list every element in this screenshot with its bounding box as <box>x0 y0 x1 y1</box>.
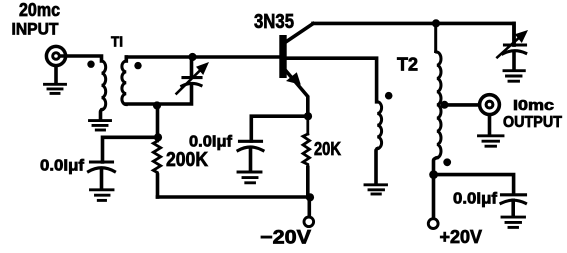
wire to -20V terminal <box>307 197 311 217</box>
wire tank bottom <box>126 85 191 104</box>
transformer T2 primary winding <box>376 102 382 184</box>
label -20V <box>260 228 311 249</box>
transistor Q1 collector <box>287 24 314 42</box>
svg-text:0.0Iμf: 0.0Iμf <box>40 158 85 175</box>
junction dot B+ node <box>429 170 438 179</box>
ground below J1 <box>45 84 66 93</box>
connector J1 input <box>46 46 65 83</box>
junction dot bottom rail <box>306 193 314 201</box>
resistor R2 20K <box>303 116 310 197</box>
wire tank to node A <box>156 106 160 138</box>
label T2 <box>397 55 418 75</box>
label 20mc <box>19 0 60 20</box>
label 200K <box>166 149 208 171</box>
ground below T2 primary <box>365 185 387 194</box>
wire tap to output connector <box>443 103 479 107</box>
svg-text:200K: 200K <box>166 149 208 171</box>
capacitor C3 <box>238 141 263 171</box>
junction dot emitter node <box>304 112 312 120</box>
junction dot tank top <box>188 53 196 61</box>
transformer T2 secondary winding <box>434 23 442 218</box>
svg-text:0.0Iμf: 0.0Iμf <box>189 134 233 151</box>
resistor R1 200K <box>153 137 160 197</box>
ground below J2 <box>479 136 504 146</box>
tap junction dot T2 secondary <box>441 101 449 109</box>
svg-text:0.0Iμf: 0.0Iμf <box>453 191 498 208</box>
svg-text:I0mc: I0mc <box>513 97 554 114</box>
label 3N35 <box>254 11 294 33</box>
transistor Q1 3N35 base bar <box>279 35 286 78</box>
svg-text:−20V: −20V <box>260 228 311 249</box>
transformer T1 primary winding <box>101 61 106 120</box>
label T1 <box>111 34 123 51</box>
variable capacitor C5 <box>497 30 528 70</box>
phase dot T2 secondary <box>443 158 451 166</box>
label 20K <box>314 139 341 159</box>
label 0.01uf right <box>453 191 498 208</box>
ground below C2 <box>91 190 114 201</box>
svg-text:+20V: +20V <box>440 227 483 247</box>
svg-text:T2: T2 <box>397 55 418 75</box>
wire emitter node to C3 <box>251 116 308 141</box>
transistor Q1 base2 wire to T2 <box>283 58 377 102</box>
wire B+ node to C4 <box>434 175 514 194</box>
label OUTPUT <box>503 114 562 131</box>
phase dot T1 secondary <box>134 62 141 69</box>
svg-text:OUTPUT: OUTPUT <box>503 114 562 131</box>
capacitor C2 <box>89 162 115 189</box>
terminal -20V <box>304 217 314 227</box>
label INPUT <box>12 20 60 39</box>
svg-text:3N35: 3N35 <box>254 11 294 33</box>
svg-text:20K: 20K <box>314 139 341 159</box>
svg-text:TI: TI <box>111 34 123 51</box>
phase dot T1 primary <box>87 60 94 67</box>
connector J2 output <box>480 95 500 135</box>
node A junction dot <box>154 133 162 141</box>
ground below C4 <box>502 217 525 227</box>
wire bottom rail <box>158 195 311 199</box>
wire node A to C2 <box>103 137 159 162</box>
variable capacitor C1 <box>177 62 210 94</box>
svg-text:INPUT: INPUT <box>12 20 60 39</box>
transistor Q1 emitter <box>286 72 308 117</box>
variable capacitor C5 top lead <box>512 23 516 45</box>
ground below C5 <box>504 71 524 82</box>
label 10mc <box>513 97 554 114</box>
svg-text:20mc: 20mc <box>19 0 60 20</box>
wire collector top rail <box>313 23 514 45</box>
label 0.01uf middle <box>189 134 233 151</box>
label +20V <box>440 227 483 247</box>
ground below C3 <box>238 172 261 183</box>
junction dot tank bottom <box>153 101 161 109</box>
ground below T1 primary <box>90 121 111 130</box>
junction dot top rail <box>432 19 440 27</box>
wire input to T1 <box>62 56 102 61</box>
wire base net (T1 top to Q1 base) <box>127 55 284 59</box>
label 0.01uf left <box>40 158 85 175</box>
capacitor C4 <box>501 195 526 217</box>
variable capacitor C1 top lead <box>190 57 194 76</box>
transformer T1 secondary winding <box>122 57 126 105</box>
terminal +20V <box>428 219 438 229</box>
phase dot T2 primary <box>385 92 393 100</box>
